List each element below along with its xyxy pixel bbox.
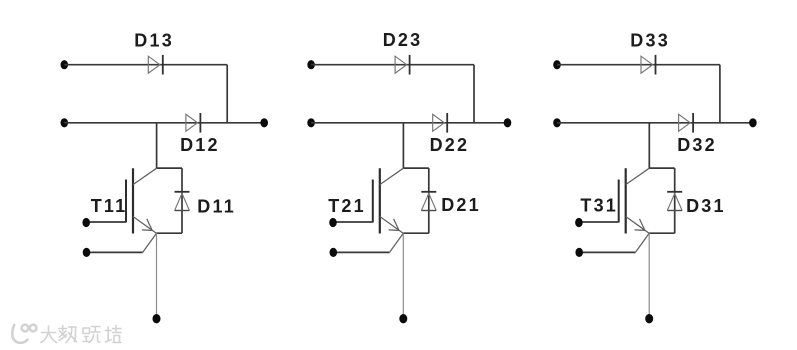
diode D31 (freewheel)	[667, 192, 682, 211]
transistor T21 (IGBT)	[373, 168, 404, 233]
node A1 (mid-left terminal)	[61, 118, 69, 127]
node E3 (emitter terminal)	[645, 314, 653, 323]
svg-text:T31: T31	[580, 195, 618, 215]
wire freewheel diode branch	[428, 168, 430, 233]
node B2 (mid-right terminal)	[504, 118, 512, 127]
diode D23	[395, 55, 410, 75]
wire top rail	[311, 64, 474, 66]
wire auxiliary emitter diagonal	[143, 233, 157, 252]
node G2 (gate terminal)	[329, 218, 337, 227]
wire collector to freewheel diode top	[157, 167, 182, 169]
svg-text:D31: D31	[686, 196, 726, 216]
wire auxiliary emitter lead	[333, 251, 389, 253]
node A2 (mid-left terminal)	[307, 118, 315, 127]
diode D21 (freewheel)	[421, 192, 436, 211]
wire gate lead	[333, 221, 373, 223]
wire freewheel diode branch	[674, 168, 676, 233]
diode D13	[148, 55, 163, 75]
wire auxiliary emitter lead	[87, 251, 143, 253]
wire auxiliary emitter diagonal	[635, 233, 649, 252]
wire corner from top rail down to mid rail	[719, 65, 721, 123]
wire collector to freewheel diode top	[403, 167, 428, 169]
node B3 (mid-right terminal)	[749, 118, 757, 127]
wire collector drop	[156, 123, 158, 168]
diode D22	[433, 113, 448, 133]
wire emitter down lead	[402, 233, 404, 314]
wire emitter down lead	[156, 233, 158, 314]
node E1aux (auxiliary emitter terminal)	[83, 248, 91, 257]
wire mid rail	[311, 122, 507, 124]
svg-text:D32: D32	[677, 135, 717, 155]
wire gate lead	[579, 221, 619, 223]
svg-text:D33: D33	[630, 30, 670, 50]
svg-text:D23: D23	[383, 30, 423, 50]
node P1 (top-left terminal)	[61, 60, 69, 69]
wire gate lead	[86, 221, 126, 223]
node E2aux (auxiliary emitter terminal)	[330, 248, 338, 257]
diode D33	[641, 55, 656, 75]
transistor T11 (IGBT)	[126, 168, 157, 233]
wire collector drop	[648, 123, 650, 168]
node E2 (emitter terminal)	[399, 314, 407, 323]
wire freewheel diode bottom to emitter	[403, 232, 429, 234]
wire auxiliary emitter diagonal	[390, 233, 404, 252]
wire mid rail	[64, 122, 264, 124]
wire freewheel diode branch	[181, 168, 183, 233]
node P3 (top-left terminal)	[553, 60, 561, 69]
node E1 (emitter terminal)	[153, 314, 161, 323]
svg-text:D12: D12	[180, 135, 220, 155]
diode D32	[679, 113, 694, 133]
wire mid rail	[557, 122, 753, 124]
wire top rail	[64, 64, 227, 66]
svg-text:D13: D13	[134, 31, 174, 51]
svg-text:D21: D21	[441, 195, 481, 215]
wire freewheel diode bottom to emitter	[649, 232, 675, 234]
wire corner from top rail down to mid rail	[226, 65, 228, 123]
wire auxiliary emitter lead	[579, 251, 635, 253]
svg-text:D11: D11	[197, 197, 236, 217]
node G3 (gate terminal)	[575, 218, 583, 227]
svg-text:D22: D22	[430, 135, 470, 155]
svg-text:T21: T21	[328, 196, 366, 216]
wire freewheel diode bottom to emitter	[156, 232, 182, 234]
wire top rail	[557, 64, 720, 66]
node A3 (mid-left terminal)	[553, 118, 561, 127]
node B1 (mid-right terminal)	[260, 118, 268, 127]
wire emitter down lead	[648, 233, 650, 314]
node G1 (gate terminal)	[82, 218, 90, 227]
wire corner from top rail down to mid rail	[473, 65, 475, 123]
wire collector drop	[402, 123, 404, 168]
watermark logo	[12, 325, 36, 343]
node P2 (top-left terminal)	[307, 60, 315, 69]
watermark text	[41, 326, 121, 343]
transistor T31 (IGBT)	[619, 168, 650, 233]
wire collector to freewheel diode top	[649, 167, 674, 169]
svg-text:T11: T11	[91, 196, 128, 216]
node E3aux (auxiliary emitter terminal)	[575, 248, 583, 257]
diode D11 (freewheel)	[175, 192, 190, 211]
diode D12	[186, 113, 201, 133]
